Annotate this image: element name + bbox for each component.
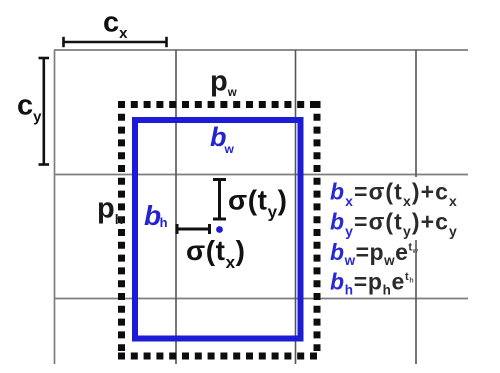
- grid horizontal line row3: [54, 298, 468, 300]
- svg-text:bw=pwetw: bw=pwetw: [330, 239, 419, 268]
- c_y bracket: [39, 58, 50, 165]
- c_x bracket: [64, 37, 167, 47]
- grid vertical line col2: [175, 50, 177, 364]
- svg-text:bh=pheth: bh=pheth: [330, 269, 414, 298]
- prior anchor box (dotted black): [118, 101, 321, 356]
- grid vertical line col1: [54, 50, 56, 364]
- box center dot (blue): [216, 226, 223, 233]
- white text box behind equations (hides part of col4 grid line): [328, 177, 466, 240]
- sigma(t_x) bracket: [177, 224, 210, 234]
- grid horizontal line row2: [54, 174, 468, 176]
- grid horizontal line row1: [54, 49, 468, 51]
- grid vertical line col3: [295, 50, 297, 364]
- grid vertical line col4: [415, 50, 417, 364]
- sigma(t_y) bracket: [213, 180, 226, 220]
- predicted bounding box (blue): [135, 120, 301, 339]
